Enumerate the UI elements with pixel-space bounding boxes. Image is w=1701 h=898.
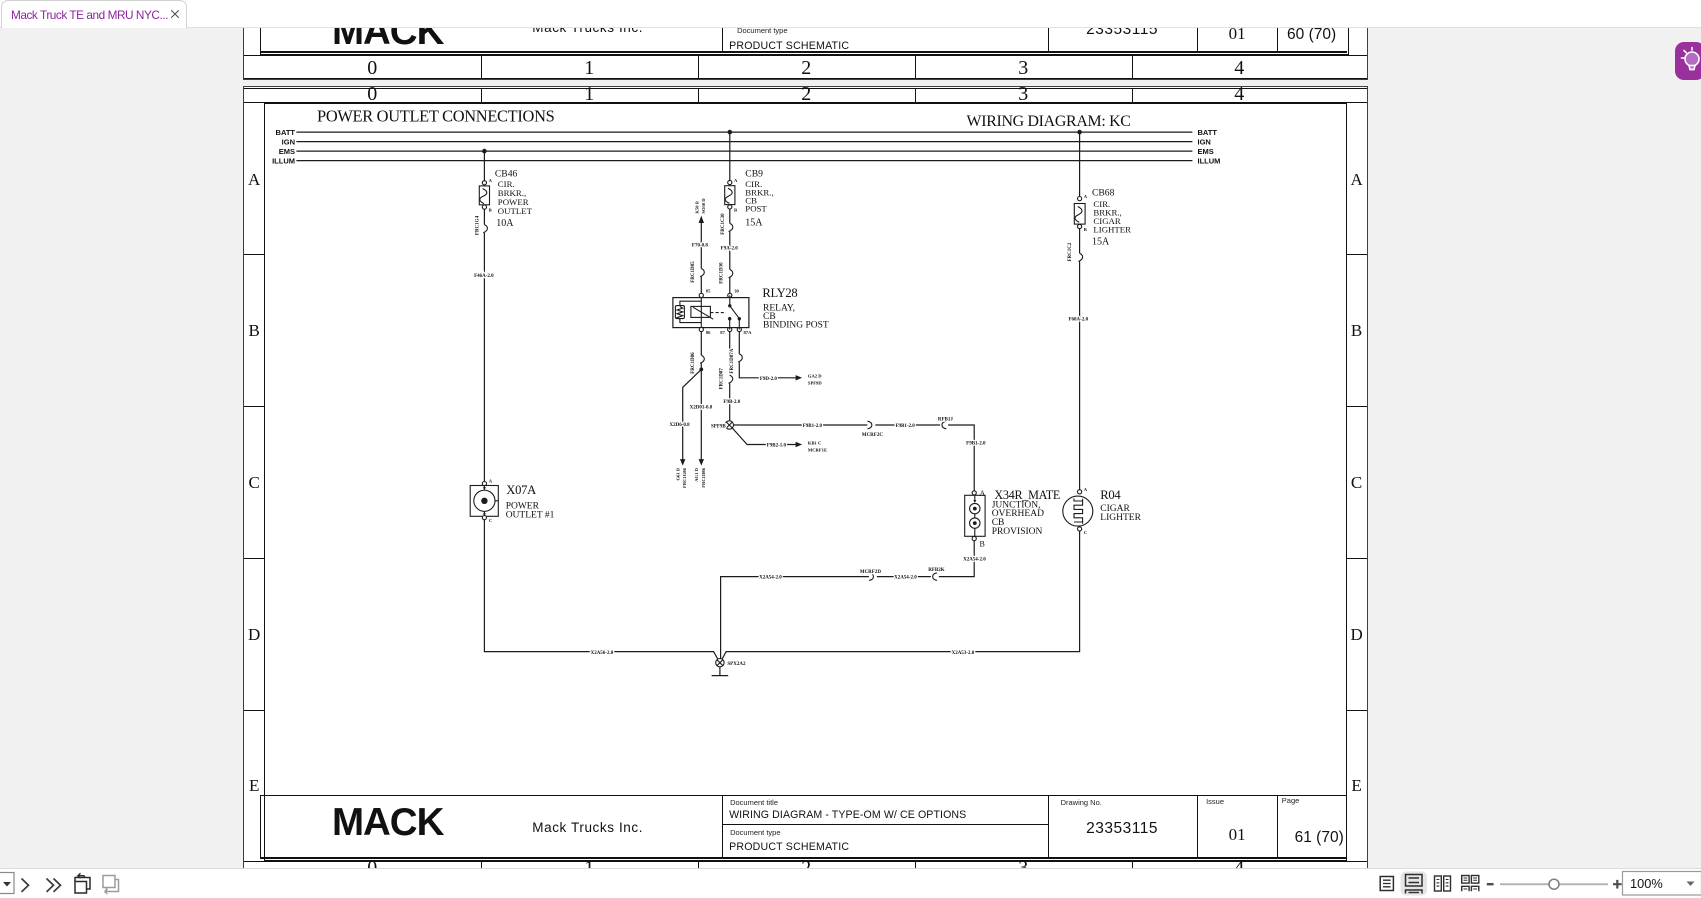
svg-text:X07A: X07A bbox=[506, 482, 536, 496]
svg-text:CB68: CB68 bbox=[1092, 187, 1115, 198]
svg-text:F9B1-2.0: F9B1-2.0 bbox=[896, 424, 916, 429]
svg-text:30: 30 bbox=[734, 288, 739, 293]
svg-text:A: A bbox=[1084, 487, 1088, 492]
svg-text:FRC1D86: FRC1D86 bbox=[691, 351, 696, 373]
svg-text:100%: 100% bbox=[1630, 876, 1663, 891]
svg-text:X2A56-2.0: X2A56-2.0 bbox=[591, 650, 614, 655]
svg-text:LIGHTER: LIGHTER bbox=[1094, 224, 1132, 234]
svg-text:B: B bbox=[489, 207, 492, 212]
svg-text:A: A bbox=[489, 478, 493, 483]
svg-text:EMS: EMS bbox=[1198, 146, 1214, 155]
svg-text:FRC1G86: FRC1G86 bbox=[682, 467, 687, 488]
svg-text:X2A54-2.0: X2A54-2.0 bbox=[759, 575, 782, 580]
svg-text:A: A bbox=[489, 178, 493, 183]
svg-text:SPX2A2: SPX2A2 bbox=[728, 662, 747, 667]
svg-text:LIGHTER: LIGHTER bbox=[1100, 513, 1141, 523]
svg-text:C: C bbox=[489, 517, 492, 522]
svg-text:AG1 D: AG1 D bbox=[694, 467, 699, 481]
svg-text:FRC1D87A: FRC1D87A bbox=[730, 348, 735, 373]
svg-text:X2D6-0.8: X2D6-0.8 bbox=[670, 422, 691, 427]
svg-text:FRC1C30: FRC1C30 bbox=[721, 212, 726, 234]
svg-text:BATT: BATT bbox=[276, 127, 296, 136]
svg-text:F9B1-2.0: F9B1-2.0 bbox=[803, 424, 823, 429]
svg-text:RFB1J: RFB1J bbox=[938, 417, 954, 422]
svg-text:15A: 15A bbox=[1092, 236, 1110, 247]
svg-text:IGN: IGN bbox=[1198, 137, 1211, 146]
svg-text:SPF9B: SPF9B bbox=[711, 424, 726, 429]
svg-text:87: 87 bbox=[720, 330, 725, 335]
svg-text:X2A54-2.0: X2A54-2.0 bbox=[894, 575, 917, 580]
svg-text:POWER OUTLET CONNECTIONS: POWER OUTLET CONNECTIONS bbox=[317, 106, 555, 125]
svg-text:ILLUM: ILLUM bbox=[272, 156, 295, 165]
svg-text:B: B bbox=[980, 539, 985, 548]
svg-text:OUTLET: OUTLET bbox=[498, 206, 533, 216]
svg-text:F9B-2.0: F9B-2.0 bbox=[724, 400, 741, 405]
svg-text:F9B2-1.0: F9B2-1.0 bbox=[767, 443, 787, 448]
svg-text:F9B1-2.0: F9B1-2.0 bbox=[966, 441, 986, 446]
svg-text:F68A-2.0: F68A-2.0 bbox=[1069, 317, 1089, 322]
svg-text:FRC1D85: FRC1D85 bbox=[691, 260, 696, 282]
svg-text:B: B bbox=[1084, 227, 1087, 232]
svg-text:EMS: EMS bbox=[279, 146, 295, 155]
svg-text:X2D01-0.8: X2D01-0.8 bbox=[690, 405, 713, 410]
svg-text:MCRF2D: MCRF2D bbox=[860, 569, 881, 574]
svg-text:FRC1D87: FRC1D87 bbox=[720, 367, 725, 389]
svg-text:SPF9D: SPF9D bbox=[808, 380, 822, 385]
svg-text:X2A53-2.0: X2A53-2.0 bbox=[952, 650, 975, 655]
svg-text:G61 B: G61 B bbox=[676, 468, 681, 480]
svg-text:OUTLET #1: OUTLET #1 bbox=[506, 510, 555, 520]
svg-text:KB1 C: KB1 C bbox=[808, 440, 821, 445]
svg-text:BATT: BATT bbox=[1198, 127, 1218, 136]
svg-text:F9D-2.0: F9D-2.0 bbox=[760, 376, 778, 381]
svg-text:86: 86 bbox=[706, 330, 711, 335]
svg-text:IGN: IGN bbox=[282, 137, 295, 146]
svg-text:CB46: CB46 bbox=[495, 168, 518, 179]
svg-text:MCRF1E: MCRF1E bbox=[808, 447, 827, 452]
svg-text:K50 B: K50 B bbox=[695, 201, 700, 213]
svg-text:WIRING DIAGRAM: KC: WIRING DIAGRAM: KC bbox=[967, 112, 1131, 129]
svg-text:C: C bbox=[1084, 529, 1087, 534]
svg-text:B: B bbox=[734, 207, 737, 212]
svg-text:10A: 10A bbox=[496, 218, 514, 229]
svg-text:15A: 15A bbox=[745, 217, 763, 228]
svg-text:FRC1D86: FRC1D86 bbox=[701, 467, 706, 487]
svg-text:ILLUM: ILLUM bbox=[1198, 156, 1221, 165]
svg-text:RFB2K: RFB2K bbox=[928, 568, 945, 573]
svg-text:F9A-2.0: F9A-2.0 bbox=[721, 246, 739, 251]
svg-text:87A: 87A bbox=[744, 330, 753, 335]
svg-text:FRC1G4: FRC1G4 bbox=[476, 215, 481, 235]
svg-text:X2A54-2.0: X2A54-2.0 bbox=[963, 557, 986, 562]
svg-text:POST: POST bbox=[745, 203, 767, 213]
svg-text:A: A bbox=[1084, 194, 1088, 199]
svg-text:FRC1C2: FRC1C2 bbox=[1068, 242, 1073, 261]
svg-text:85: 85 bbox=[706, 288, 711, 293]
svg-text:R04: R04 bbox=[1100, 488, 1121, 502]
svg-text:A: A bbox=[734, 177, 738, 182]
svg-text:F70-0.8: F70-0.8 bbox=[692, 243, 708, 248]
svg-text:F46A-2.0: F46A-2.0 bbox=[474, 274, 494, 279]
svg-text:FRC1D30: FRC1D30 bbox=[720, 261, 725, 283]
svg-text:BINDING POST: BINDING POST bbox=[763, 320, 829, 330]
svg-text:RLY28: RLY28 bbox=[763, 285, 798, 299]
svg-text:PROVISION: PROVISION bbox=[992, 526, 1043, 536]
svg-text:GA2 D: GA2 D bbox=[808, 373, 822, 378]
svg-text:SO50 D: SO50 D bbox=[701, 197, 706, 213]
svg-text:MCRF2C: MCRF2C bbox=[862, 433, 883, 438]
